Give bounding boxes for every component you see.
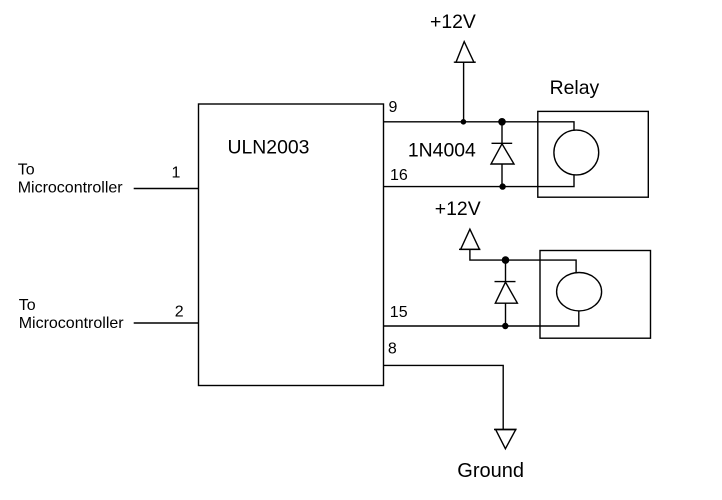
svg-text:Microcontroller: Microcontroller	[18, 180, 124, 197]
svg-text:+12V: +12V	[430, 11, 476, 33]
svg-text:1: 1	[172, 164, 181, 181]
power +12V symbol 1	[454, 42, 476, 122]
svg-text:Ground: Ground	[457, 460, 524, 482]
relay K2 body	[540, 251, 651, 339]
svg-text:1N4004: 1N4004	[408, 140, 476, 162]
svg-text:To: To	[18, 161, 35, 178]
ground symbol	[494, 430, 516, 449]
power +12V symbol 2	[459, 229, 506, 260]
diode D2 1N4004	[495, 260, 518, 326]
junction node at diode D1 bottom	[499, 183, 505, 189]
svg-text:8: 8	[388, 341, 397, 358]
svg-text:+12V: +12V	[435, 198, 481, 220]
diode D1 1N4004	[491, 122, 514, 187]
wire input 2	[134, 322, 199, 324]
wire pin 9 to relay coil top	[384, 122, 575, 131]
junction node at +12V / pin 9	[461, 119, 467, 125]
svg-text:2: 2	[175, 303, 184, 320]
wire pin 16 to relay coil bottom	[384, 175, 575, 187]
wire pin 15 to relay 2 coil bottom	[384, 311, 579, 326]
junction node at diode D1 top	[498, 118, 506, 126]
relay K1 body	[538, 111, 649, 197]
svg-text:15: 15	[390, 304, 408, 321]
junction node at diode D2 top	[502, 256, 510, 264]
IC U1 ULN2003 body	[199, 104, 384, 386]
svg-text:Microcontroller: Microcontroller	[19, 315, 125, 332]
junction node at diode D2 bottom	[502, 323, 508, 329]
svg-text:To: To	[19, 297, 36, 314]
wire pin 8 to ground	[384, 365, 504, 429]
wire +12V node to relay 2 coil top	[506, 260, 577, 273]
relay K2 coil	[557, 273, 602, 311]
wire input 1	[134, 188, 199, 190]
relay K1 coil	[554, 130, 599, 175]
svg-text:Relay: Relay	[550, 77, 600, 99]
svg-text:16: 16	[390, 167, 408, 184]
svg-text:9: 9	[389, 99, 398, 116]
svg-text:ULN2003: ULN2003	[228, 136, 310, 158]
